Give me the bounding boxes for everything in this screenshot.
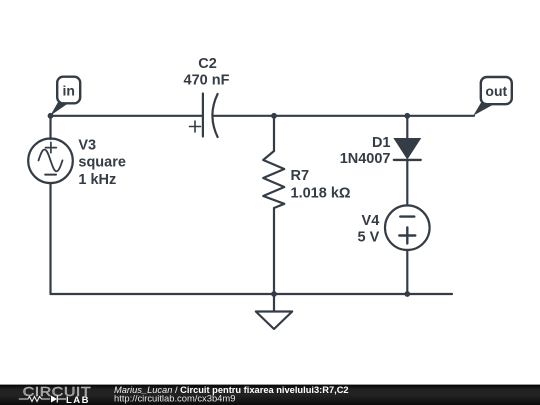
wire D1 cathode to V4 top (406, 160, 408, 206)
wire V3 top lead (49, 116, 51, 139)
svg-text:C2: C2 (198, 56, 217, 72)
junction bottom at ground (271, 291, 277, 297)
diode D1 (394, 139, 421, 160)
svg-text:R7: R7 (291, 168, 310, 184)
svg-text:V4: V4 (362, 213, 380, 229)
voltage source V4 (385, 205, 430, 250)
wire D1 top lead (406, 116, 408, 139)
svg-text:in: in (62, 83, 74, 99)
svg-text:1.018 kΩ: 1.018 kΩ (291, 186, 351, 202)
node dot at in (48, 113, 54, 119)
svg-text:470 nF: 470 nF (184, 73, 230, 89)
svg-text:V3: V3 (78, 137, 96, 153)
label C2 value (184, 56, 230, 89)
wire V4 bottom lead (406, 250, 408, 294)
node out flag (473, 77, 512, 116)
wire top-right from C2 right plate to out corner (213, 115, 475, 117)
wire V3 bottom lead (49, 183, 51, 294)
svg-text:LAB: LAB (66, 395, 90, 405)
wire R7 bottom lead (273, 208, 275, 294)
svg-text:5 V: 5 V (358, 229, 380, 245)
svg-text:1 kHz: 1 kHz (78, 172, 116, 188)
wire bottom rail (51, 293, 453, 295)
svg-text:1N4007: 1N4007 (340, 151, 391, 167)
junction bottom at V4 (404, 291, 410, 297)
svg-text:out: out (485, 83, 507, 99)
svg-text:http://circuitlab.com/cx3b4m9: http://circuitlab.com/cx3b4m9 (114, 393, 235, 404)
junction top at R7 (271, 113, 277, 119)
resistor R7 (263, 151, 284, 208)
voltage source V3 (28, 139, 73, 184)
label V4 value (358, 213, 380, 245)
label V3 value (78, 137, 126, 188)
label D1 value (340, 135, 391, 167)
svg-text:D1: D1 (372, 135, 391, 151)
footer logo CIRCUIT LAB (19, 385, 91, 405)
svg-text:square: square (78, 155, 126, 171)
label R7 value (291, 168, 351, 202)
footer bar (0, 385, 540, 405)
wire R7 top lead (273, 116, 275, 151)
wire top-left from node in to C2 left plate (51, 115, 203, 117)
junction top at D1 (404, 113, 410, 119)
capacitor C2 (190, 94, 218, 138)
node in flag (50, 77, 80, 116)
footer title text (114, 385, 349, 404)
ground (256, 294, 292, 329)
